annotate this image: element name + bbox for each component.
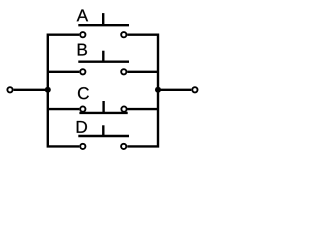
switch B right contact bbox=[121, 69, 126, 74]
switch A right contact bbox=[121, 32, 126, 37]
switch B left contact bbox=[80, 69, 85, 74]
switch C actuator stem bbox=[102, 101, 104, 113]
switch D contact bar bbox=[78, 135, 129, 137]
switch B contact bar bbox=[78, 61, 129, 63]
wire: left terminal to left junction bbox=[14, 89, 48, 91]
wire: left bus to switch C left contact bbox=[48, 108, 80, 110]
switch A contact bar bbox=[78, 24, 129, 26]
wire: right junction to right terminal bbox=[158, 89, 191, 91]
wire: right bus with branches to row A and row D bbox=[127, 35, 158, 147]
terminal TL (left input) bbox=[7, 87, 12, 92]
junction (right bus node) bbox=[155, 87, 161, 93]
switch D actuator stem bbox=[102, 125, 104, 136]
switch D left contact bbox=[80, 144, 85, 149]
label A bbox=[77, 9, 88, 21]
label D bbox=[77, 121, 87, 133]
switch A actuator stem bbox=[102, 13, 104, 25]
switch C contact bar (normally closed, below contacts) bbox=[79, 112, 127, 114]
switch B actuator stem bbox=[102, 51, 104, 62]
wire: switch C right contact to right bus bbox=[128, 108, 159, 110]
switch C right contact bbox=[121, 106, 126, 111]
label B bbox=[78, 44, 87, 56]
switch A left contact bbox=[80, 32, 85, 37]
switch D right contact bbox=[121, 144, 126, 149]
wire: left bus to switch B left contact bbox=[48, 71, 80, 73]
terminal TR (right output) bbox=[192, 87, 197, 92]
wire: left bus with branches to row A and row D bbox=[48, 35, 80, 147]
switch C left contact bbox=[80, 106, 85, 111]
wire: switch B right contact to right bus bbox=[127, 71, 158, 73]
junction (left bus node) bbox=[45, 87, 51, 93]
label C bbox=[78, 87, 89, 99]
